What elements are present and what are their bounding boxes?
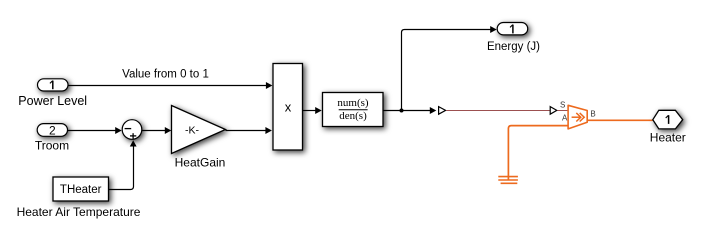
svg-text:Power Level: Power Level [18, 94, 87, 108]
junction node [400, 109, 404, 113]
product block [273, 64, 303, 151]
wire Troom to Sum [68, 130, 116, 132]
port number 1 [510, 25, 513, 34]
svg-text:-K-: -K- [185, 125, 200, 137]
svg-text:2: 2 [49, 123, 56, 137]
svg-text:B: B [590, 110, 595, 119]
input converter hollow triangle [439, 107, 446, 115]
svg-text:num(s): num(s) [337, 97, 369, 109]
outport Heater hexagon [653, 110, 683, 129]
wire Power Level to Product [68, 85, 266, 87]
svg-text:Value from 0 to 1: Value from 0 to 1 [122, 68, 209, 80]
wire Sum to HeatGain [142, 130, 166, 132]
port number 1 [666, 115, 669, 124]
svg-text:Heater Air Temperature: Heater Air Temperature [17, 205, 141, 219]
port number 1 [50, 81, 53, 90]
heat source icon arrow [572, 113, 585, 122]
thermal reference (ground) [498, 177, 518, 184]
wire junction up to Energy outport [402, 30, 492, 111]
svg-text:den(s): den(s) [339, 110, 367, 122]
svg-text:Energy (J): Energy (J) [487, 41, 540, 53]
inport 2 Troom [37, 124, 67, 137]
transfer fcn block [323, 93, 384, 127]
heat flow rate source block (orange) [568, 105, 587, 129]
svg-text:S: S [560, 101, 565, 110]
hollow triangle at S input [550, 107, 557, 115]
svg-text:THeater: THeater [60, 184, 102, 196]
wire Transfer Fcn to converter, with junction [383, 110, 431, 112]
sum block [122, 120, 142, 140]
svg-text:Troom: Troom [35, 138, 69, 152]
svg-text:A: A [562, 114, 568, 123]
outport 1 Energy (J) [497, 23, 528, 35]
transfer fcn equation num(s)/den(s) [337, 97, 369, 122]
gain HeatGain [172, 106, 226, 154]
physical signal line [446, 110, 549, 112]
svg-text:HeatGain: HeatGain [175, 156, 226, 170]
orange wire B port to Heater outport [587, 119, 652, 121]
wire THeater up to Sum [109, 145, 134, 190]
orange wire A port to thermal reference [508, 126, 568, 180]
sum plus sign [130, 135, 136, 137]
wire HeatGain to Product [226, 130, 267, 132]
wire Product to Transfer Fcn [303, 110, 316, 112]
svg-text:Heater: Heater [650, 130, 686, 144]
block THeater [53, 177, 109, 201]
inport 1 Power Level [38, 79, 69, 91]
sum minus sign [125, 128, 132, 130]
svg-text:x: x [285, 99, 292, 114]
